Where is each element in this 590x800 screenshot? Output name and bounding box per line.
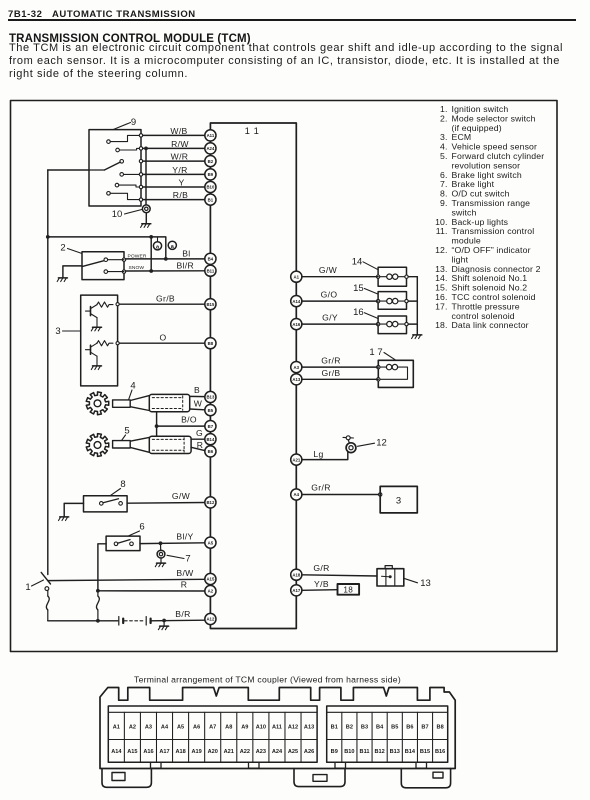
terminal A4 bbox=[291, 489, 302, 500]
wire G/O bbox=[302, 300, 378, 302]
TCM module box U11 bbox=[210, 123, 296, 629]
svg-text:Bl/Y: Bl/Y bbox=[176, 532, 193, 542]
junction Bl/Y branch bbox=[159, 541, 163, 545]
wire R (sensor 5) bbox=[191, 447, 205, 450]
svg-text:A15: A15 bbox=[206, 577, 214, 582]
svg-text:Y/B: Y/B bbox=[314, 579, 329, 589]
svg-text:Bl: Bl bbox=[182, 248, 190, 258]
svg-text:10: 10 bbox=[112, 209, 123, 220]
shift/TCC solenoid 14 bbox=[376, 267, 408, 286]
revolution sensor 5 pickup bbox=[113, 441, 131, 448]
terminal B14 bbox=[205, 434, 216, 445]
svg-text:B8: B8 bbox=[437, 725, 444, 731]
svg-text:A22: A22 bbox=[240, 749, 250, 755]
svg-text:A4: A4 bbox=[161, 725, 169, 731]
terminal A17 bbox=[291, 585, 302, 596]
svg-text:A24: A24 bbox=[272, 749, 283, 755]
svg-text:Terminal arrangement of TCM co: Terminal arrangement of TCM coupler (Vie… bbox=[134, 674, 401, 684]
coupler lock tabs bottom bbox=[151, 762, 162, 768]
wire G/R bbox=[302, 575, 377, 576]
svg-text:A18: A18 bbox=[175, 749, 185, 755]
wire Y/B bbox=[302, 589, 338, 592]
shift/TCC solenoid 16 bbox=[376, 316, 408, 334]
svg-text:B15: B15 bbox=[206, 302, 214, 307]
terminal A3 bbox=[291, 362, 302, 373]
brake light switch S6 bbox=[106, 536, 140, 551]
brake light L7 bbox=[155, 543, 165, 566]
svg-text:A4: A4 bbox=[294, 492, 300, 497]
wire bus to switch 9 bbox=[48, 169, 89, 171]
svg-text:B/W: B/W bbox=[176, 568, 194, 578]
sensor unit 3 (forward clutch cylinder revolution sensor) bbox=[81, 295, 118, 386]
wire W bbox=[190, 408, 205, 411]
data link connector 18 bbox=[338, 584, 360, 595]
svg-text:B6: B6 bbox=[208, 449, 214, 454]
svg-text:G/O: G/O bbox=[321, 289, 338, 299]
svg-text:B2: B2 bbox=[346, 725, 353, 731]
svg-text:9.: 9. bbox=[440, 198, 447, 208]
svg-text:A26: A26 bbox=[304, 749, 314, 755]
junction bus/link bbox=[46, 235, 50, 239]
svg-text:A5: A5 bbox=[208, 540, 214, 545]
ECM box 3 bbox=[380, 486, 417, 513]
svg-text:18.: 18. bbox=[435, 320, 447, 330]
terminal B6 bbox=[205, 446, 216, 457]
svg-text:A13: A13 bbox=[304, 725, 314, 731]
left supply bus bbox=[47, 170, 49, 575]
svg-text:W: W bbox=[194, 399, 203, 409]
svg-text:A1: A1 bbox=[294, 274, 300, 279]
svg-text:12.: 12. bbox=[435, 245, 447, 255]
svg-text:W/B: W/B bbox=[170, 126, 187, 136]
svg-text:A18: A18 bbox=[292, 572, 300, 577]
svg-text:A14: A14 bbox=[292, 299, 300, 304]
svg-text:G/W: G/W bbox=[319, 265, 338, 275]
svg-text:B2: B2 bbox=[208, 159, 214, 164]
battery bbox=[119, 617, 151, 625]
svg-text:18: 18 bbox=[343, 586, 353, 595]
throttle pressure control solenoid 17 bbox=[377, 360, 414, 387]
mode selector switch S2 bbox=[82, 252, 126, 280]
wire G/W (left) bbox=[127, 502, 205, 505]
coupler foot middle bbox=[294, 769, 345, 787]
svg-text:Data link connector: Data link connector bbox=[452, 320, 529, 330]
svg-text:B12: B12 bbox=[206, 500, 214, 505]
ignition switch S1 bbox=[41, 572, 50, 590]
vehicle speed sensor 4 rotor gear bbox=[86, 392, 108, 415]
svg-text:A2: A2 bbox=[208, 589, 214, 594]
solenoid return wire bbox=[408, 276, 417, 278]
coupler foot right bbox=[401, 769, 450, 788]
svg-text:B15: B15 bbox=[420, 749, 430, 755]
svg-text:A16: A16 bbox=[292, 322, 300, 327]
wire R/B bbox=[143, 199, 205, 201]
svg-text:A24: A24 bbox=[206, 146, 214, 151]
wire Lg bbox=[302, 452, 348, 459]
O/D OFF indicator light L12 bbox=[343, 436, 356, 453]
terminal A13 bbox=[291, 374, 302, 385]
ground for S2 bbox=[57, 266, 82, 282]
ground for S8 bbox=[59, 503, 84, 520]
svg-text:A17: A17 bbox=[292, 588, 300, 593]
svg-text:G/W: G/W bbox=[172, 491, 191, 501]
svg-text:G: G bbox=[196, 428, 203, 438]
svg-text:Gr/B: Gr/B bbox=[321, 368, 340, 378]
svg-text:A11: A11 bbox=[207, 133, 215, 138]
svg-text:A11: A11 bbox=[272, 725, 282, 731]
svg-text:A23: A23 bbox=[256, 749, 266, 755]
ground tap on B/R bbox=[158, 619, 168, 630]
diagram frame bbox=[11, 101, 558, 652]
svg-text:A21: A21 bbox=[224, 749, 234, 755]
svg-text:Y: Y bbox=[178, 178, 184, 188]
wire W/B bbox=[143, 134, 205, 136]
terminal B2 bbox=[205, 156, 216, 167]
svg-text:R/B: R/B bbox=[173, 190, 188, 200]
svg-text:B9: B9 bbox=[331, 749, 338, 755]
wire Bl/Y bbox=[140, 542, 205, 545]
transmission range switch S9 bbox=[89, 130, 143, 206]
diagnosis connector 13 bbox=[377, 566, 404, 586]
back-up lights L10 bbox=[141, 205, 151, 227]
terminal A18 bbox=[291, 569, 302, 580]
terminal A21 bbox=[291, 454, 302, 465]
svg-text:6: 6 bbox=[139, 522, 144, 533]
svg-text:O: O bbox=[159, 332, 166, 342]
pin grid block A bbox=[108, 706, 317, 762]
svg-text:B10: B10 bbox=[206, 185, 214, 190]
svg-text:Lg: Lg bbox=[313, 449, 323, 459]
svg-text:14: 14 bbox=[352, 256, 363, 267]
svg-text:A3: A3 bbox=[294, 365, 300, 370]
wire W/R bbox=[143, 160, 205, 162]
svg-text:B13: B13 bbox=[206, 395, 214, 400]
terminal A1 bbox=[291, 271, 302, 282]
svg-text:B5: B5 bbox=[208, 408, 214, 413]
terminal B5 bbox=[205, 405, 216, 416]
terminal B10 bbox=[205, 181, 216, 192]
wire link to mode selector circuit bbox=[48, 237, 166, 259]
terminal B13 bbox=[205, 391, 216, 402]
wire O bbox=[118, 342, 205, 344]
wire B/O shield link bbox=[156, 412, 158, 437]
terminal B12 bbox=[205, 497, 216, 508]
connector a (1) bbox=[153, 237, 161, 250]
svg-text:A3: A3 bbox=[145, 725, 152, 731]
svg-text:11.: 11. bbox=[436, 226, 448, 236]
svg-text:B10: B10 bbox=[344, 749, 354, 755]
svg-text:B9: B9 bbox=[208, 172, 214, 177]
terminal B9 bbox=[205, 169, 216, 180]
svg-text:B14: B14 bbox=[206, 437, 214, 442]
svg-text:5.: 5. bbox=[440, 151, 447, 161]
terminal B4 bbox=[205, 253, 216, 264]
svg-text:3: 3 bbox=[55, 326, 60, 337]
wire Bl/R bbox=[126, 270, 205, 272]
svg-text:B6: B6 bbox=[406, 725, 413, 731]
svg-text:A2: A2 bbox=[129, 725, 136, 731]
terminal B8 bbox=[205, 338, 216, 349]
svg-text:A20: A20 bbox=[208, 749, 218, 755]
fuse F1 bbox=[47, 590, 49, 596]
svg-text:2: 2 bbox=[60, 243, 65, 254]
svg-text:16: 16 bbox=[353, 307, 364, 318]
wire Y/R bbox=[143, 173, 205, 175]
svg-text:B1: B1 bbox=[331, 725, 338, 731]
wire Y bbox=[143, 186, 205, 188]
svg-text:A25: A25 bbox=[288, 749, 298, 755]
junction on R/W wire bbox=[144, 147, 148, 151]
svg-text:1: 1 bbox=[25, 582, 30, 593]
solenoid return bus bbox=[416, 277, 418, 335]
wire Gr/B (to 17) bbox=[302, 378, 378, 380]
wire G/W bbox=[302, 276, 378, 278]
svg-text:B3: B3 bbox=[361, 725, 368, 731]
wire Gr/B bbox=[118, 303, 205, 305]
wire R bbox=[96, 589, 100, 593]
pin grid block B bbox=[327, 706, 448, 762]
svg-text:A17: A17 bbox=[159, 749, 169, 755]
svg-text:A6: A6 bbox=[193, 725, 200, 731]
wire B/R + battery bbox=[48, 620, 118, 622]
O/D cut switch S8 bbox=[84, 496, 128, 512]
revolution sensor 5 rotor gear bbox=[86, 434, 108, 457]
svg-text:W/R: W/R bbox=[171, 152, 189, 162]
svg-text:B7: B7 bbox=[421, 725, 428, 731]
vehicle speed sensor 4 pickup bbox=[113, 400, 131, 407]
svg-text:G/R: G/R bbox=[313, 563, 329, 573]
svg-text:A1: A1 bbox=[113, 725, 120, 731]
terminal A11 bbox=[205, 130, 216, 141]
svg-text:A8: A8 bbox=[225, 725, 232, 731]
svg-text:7: 7 bbox=[185, 554, 190, 565]
svg-text:A16: A16 bbox=[143, 749, 153, 755]
svg-text:B7: B7 bbox=[208, 424, 214, 429]
TCM coupler shell bbox=[100, 688, 455, 769]
svg-text:A5: A5 bbox=[177, 725, 184, 731]
terminal A24 bbox=[205, 143, 216, 154]
wire S6 to fuse line bbox=[98, 544, 106, 591]
svg-text:A9: A9 bbox=[241, 725, 248, 731]
svg-text:A12: A12 bbox=[288, 725, 298, 731]
terminal A15 bbox=[205, 573, 216, 584]
svg-text:A10: A10 bbox=[256, 725, 266, 731]
terminal B1 bbox=[205, 194, 216, 205]
svg-text:SNOW: SNOW bbox=[129, 265, 145, 271]
svg-text:A7: A7 bbox=[209, 725, 216, 731]
svg-text:B12: B12 bbox=[375, 749, 385, 755]
svg-text:R: R bbox=[197, 440, 204, 450]
svg-text:B4: B4 bbox=[208, 257, 214, 262]
terminal A16 bbox=[291, 319, 302, 330]
svg-text:13: 13 bbox=[420, 578, 431, 589]
svg-text:B5: B5 bbox=[391, 725, 398, 731]
svg-text:2.: 2. bbox=[440, 113, 447, 123]
svg-text:B1: B1 bbox=[208, 197, 214, 202]
svg-text:Y/R: Y/R bbox=[172, 165, 187, 175]
wire G/Y bbox=[302, 323, 378, 325]
solenoid return wire bbox=[408, 323, 417, 325]
svg-text:B16: B16 bbox=[435, 749, 445, 755]
terminal A12 bbox=[205, 613, 216, 624]
svg-text:A15: A15 bbox=[127, 749, 137, 755]
svg-text:B/R: B/R bbox=[175, 609, 190, 619]
svg-text:Gr/R: Gr/R bbox=[311, 482, 331, 492]
svg-text:R/W: R/W bbox=[171, 139, 189, 149]
svg-text:A13: A13 bbox=[292, 377, 300, 382]
wire to back-up lights bbox=[145, 148, 147, 204]
legend list bbox=[435, 104, 544, 330]
connector a (2) bbox=[168, 241, 176, 250]
svg-text:1 1: 1 1 bbox=[245, 126, 260, 137]
svg-text:12: 12 bbox=[376, 438, 387, 449]
svg-text:B: B bbox=[194, 385, 200, 395]
terminal A14 bbox=[291, 296, 302, 307]
svg-text:9: 9 bbox=[131, 117, 136, 128]
wire B bbox=[190, 395, 205, 397]
svg-text:A14: A14 bbox=[111, 749, 122, 755]
svg-text:17.: 17. bbox=[435, 301, 447, 311]
svg-text:4: 4 bbox=[130, 381, 135, 392]
svg-text:B11: B11 bbox=[360, 749, 370, 755]
wire R/W bbox=[143, 147, 205, 149]
shift/TCC solenoid 15 bbox=[376, 292, 408, 310]
solenoid ground bbox=[413, 334, 422, 336]
svg-text:A12: A12 bbox=[206, 617, 214, 622]
svg-text:R: R bbox=[181, 580, 188, 590]
svg-text:B11: B11 bbox=[207, 268, 215, 273]
svg-text:3: 3 bbox=[396, 496, 401, 507]
terminal B15 bbox=[205, 299, 216, 310]
wire G bbox=[191, 438, 205, 440]
terminal A5 bbox=[205, 537, 216, 548]
svg-text:15: 15 bbox=[353, 283, 364, 294]
terminal B11 bbox=[205, 265, 216, 276]
svg-text:Gr/B: Gr/B bbox=[156, 293, 175, 303]
wire Gr/R (to 17) bbox=[302, 366, 378, 368]
svg-text:1 7: 1 7 bbox=[369, 347, 382, 358]
svg-text:Gr/R: Gr/R bbox=[321, 356, 341, 366]
coupler foot left bbox=[102, 769, 151, 788]
solenoid return wire bbox=[408, 300, 417, 302]
wire B/W bbox=[48, 579, 205, 580]
svg-text:B14: B14 bbox=[405, 749, 416, 755]
junction link/SNOW bbox=[149, 235, 153, 239]
fuse F2 bbox=[97, 591, 99, 596]
svg-text:B13: B13 bbox=[390, 749, 400, 755]
svg-text:B8: B8 bbox=[208, 341, 214, 346]
svg-text:Bl/R: Bl/R bbox=[176, 261, 194, 271]
wire Bl bbox=[126, 258, 205, 260]
terminal A2 bbox=[205, 585, 216, 596]
svg-text:A21: A21 bbox=[292, 457, 300, 462]
terminal B7 bbox=[205, 421, 216, 432]
svg-text:B4: B4 bbox=[376, 725, 384, 731]
svg-text:A19: A19 bbox=[192, 749, 202, 755]
wire Gr/R (to ECM) bbox=[302, 494, 380, 496]
svg-text:G/Y: G/Y bbox=[322, 312, 338, 322]
svg-text:B/O: B/O bbox=[181, 415, 197, 425]
svg-text:8: 8 bbox=[120, 479, 125, 490]
